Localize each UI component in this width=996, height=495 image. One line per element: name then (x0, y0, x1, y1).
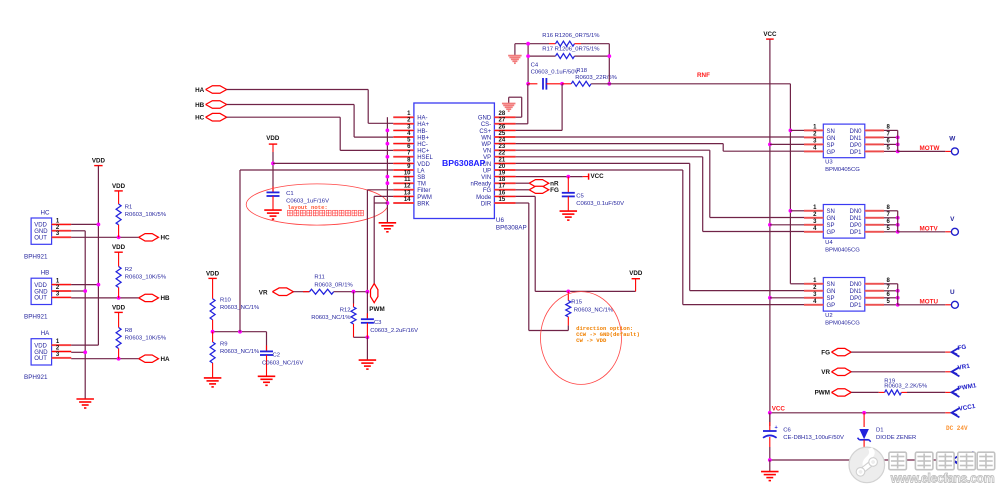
svg-text:R9: R9 (220, 342, 228, 348)
svg-text:CW -> VDD: CW -> VDD (576, 337, 607, 344)
svg-text:OUT: OUT (34, 356, 47, 362)
svg-text:+: + (775, 425, 778, 431)
svg-text:PWM: PWM (369, 306, 384, 313)
svg-text:DP1: DP1 (850, 303, 862, 309)
svg-text:SP: SP (827, 296, 835, 302)
svg-text:GP: GP (827, 230, 836, 236)
svg-text:VR: VR (821, 369, 830, 376)
svg-text:VCC: VCC (772, 406, 786, 413)
svg-text:HA: HA (41, 330, 50, 337)
svg-text:R0603_2.2K/5%: R0603_2.2K/5% (884, 384, 928, 390)
svg-text:HB: HB (161, 295, 171, 302)
svg-text:DIR: DIR (481, 201, 492, 207)
svg-text:nReady: nReady (471, 182, 492, 188)
svg-text:R16 R1206_0R75/1%: R16 R1206_0R75/1% (542, 33, 600, 39)
svg-text:DP1: DP1 (850, 150, 862, 156)
svg-text:HA: HA (195, 87, 205, 94)
svg-text:WN: WN (481, 135, 491, 141)
svg-text:DP1: DP1 (850, 230, 862, 236)
svg-text:HC+: HC+ (417, 149, 430, 155)
svg-text:U4: U4 (825, 240, 833, 246)
svg-text:FG: FG (483, 188, 492, 194)
svg-text:SN: SN (827, 209, 835, 215)
svg-text:DP0: DP0 (850, 223, 862, 229)
svg-text:GP: GP (827, 303, 836, 309)
svg-text:BPH921: BPH921 (24, 314, 48, 321)
svg-text:VDD: VDD (34, 223, 47, 229)
svg-text:11: 11 (404, 177, 411, 183)
svg-text:VDD: VDD (112, 244, 126, 251)
svg-text:MOTW: MOTW (920, 145, 940, 152)
svg-text:VCC: VCC (763, 31, 777, 38)
svg-text:VDD: VDD (629, 270, 643, 277)
svg-text:SP: SP (827, 143, 835, 149)
svg-text:DP0: DP0 (850, 143, 862, 149)
svg-text:FG: FG (957, 344, 967, 352)
svg-text:HB+: HB+ (417, 135, 429, 141)
svg-text:D1: D1 (876, 428, 884, 434)
svg-text:27: 27 (499, 118, 506, 124)
svg-text:VDD: VDD (112, 183, 126, 190)
svg-text:U6: U6 (496, 217, 505, 224)
svg-text:R18: R18 (576, 68, 588, 74)
svg-text:25: 25 (499, 131, 506, 137)
svg-text:W: W (949, 135, 956, 142)
svg-text:R2: R2 (125, 267, 133, 273)
svg-text:DN1: DN1 (849, 136, 862, 142)
svg-text:V: V (950, 216, 955, 223)
svg-text:VR: VR (259, 289, 268, 296)
svg-text:HC: HC (161, 235, 171, 242)
svg-text:C2: C2 (273, 353, 281, 359)
svg-text:VDD: VDD (417, 162, 430, 168)
svg-text:DN1: DN1 (849, 289, 862, 295)
svg-text:10: 10 (404, 171, 411, 177)
svg-text:21: 21 (499, 157, 506, 163)
svg-text:U2: U2 (825, 313, 833, 319)
svg-text:C0603_0.1uF/50V: C0603_0.1uF/50V (531, 70, 579, 76)
svg-text:HB: HB (41, 270, 50, 277)
svg-text:26: 26 (499, 124, 506, 130)
svg-text:layout note:: layout note: (288, 204, 328, 211)
svg-text:LA: LA (417, 168, 424, 174)
svg-text:SN: SN (827, 282, 835, 288)
svg-text:13: 13 (404, 190, 411, 196)
svg-text:BRK: BRK (417, 201, 429, 207)
svg-text:14: 14 (404, 197, 411, 203)
svg-text:RNF: RNF (697, 72, 710, 79)
svg-text:DN0: DN0 (849, 129, 862, 135)
svg-text:R17 R1206_0R75/1%: R17 R1206_0R75/1% (542, 46, 600, 52)
svg-text:HA+: HA+ (417, 122, 429, 128)
svg-text:C0603_NC/16V: C0603_NC/16V (262, 361, 303, 367)
svg-text:GND: GND (34, 289, 48, 295)
svg-text:DP0: DP0 (850, 296, 862, 302)
svg-text:VCC: VCC (591, 173, 605, 180)
svg-text:VP: VP (483, 155, 491, 161)
svg-text:OUT: OUT (34, 236, 47, 242)
svg-text:VDD: VDD (92, 158, 106, 165)
svg-text:R0603_22R/5%: R0603_22R/5% (575, 75, 617, 81)
svg-text:R10: R10 (220, 298, 232, 304)
svg-text:C6: C6 (783, 428, 791, 434)
svg-text:VDD: VDD (34, 343, 47, 349)
svg-text:www.elecfans.com: www.elecfans.com (890, 471, 995, 485)
svg-text:BPH921: BPH921 (24, 374, 48, 381)
svg-text:MOTU: MOTU (920, 298, 939, 305)
svg-text:BP6308AP: BP6308AP (496, 225, 527, 232)
svg-text:HC-: HC- (417, 142, 428, 148)
svg-text:DIODE ZENER: DIODE ZENER (876, 435, 916, 441)
svg-text:BPM0405CG: BPM0405CG (825, 167, 860, 173)
svg-text:PWM: PWM (815, 390, 830, 397)
svg-text:R0603_NC/1%: R0603_NC/1% (311, 315, 351, 321)
svg-text:FG: FG (821, 349, 830, 356)
svg-text:UN: UN (483, 162, 492, 168)
svg-text:UP: UP (483, 168, 491, 174)
svg-text:VDD: VDD (266, 135, 280, 142)
svg-text:R0603_0R/1%: R0603_0R/1% (314, 282, 353, 288)
svg-text:HB: HB (195, 102, 205, 109)
svg-text:C1: C1 (286, 191, 294, 197)
svg-text:28: 28 (499, 111, 506, 117)
svg-text:CS+: CS+ (479, 129, 491, 135)
svg-text:HC: HC (41, 209, 50, 216)
svg-text:WP: WP (482, 142, 492, 148)
svg-text:DN1: DN1 (849, 216, 862, 222)
svg-text:BPM0405CG: BPM0405CG (825, 247, 860, 253)
svg-text:SP: SP (827, 223, 835, 229)
svg-text:R11: R11 (314, 275, 324, 281)
svg-text:R8: R8 (125, 328, 133, 334)
svg-text:DN0: DN0 (849, 209, 862, 215)
svg-text:FG: FG (550, 187, 559, 194)
svg-text:C5: C5 (576, 194, 584, 200)
svg-text:HB-: HB- (417, 129, 427, 135)
svg-text:C3: C3 (374, 320, 382, 326)
svg-text:19: 19 (499, 171, 506, 177)
svg-text:R0603_NC/1%: R0603_NC/1% (220, 349, 260, 355)
svg-text:VDD: VDD (34, 283, 47, 289)
svg-text:C4: C4 (531, 62, 539, 68)
svg-text:R0603_10K/5%: R0603_10K/5% (125, 275, 167, 281)
svg-text:GN: GN (827, 136, 836, 142)
svg-text:GN: GN (827, 216, 836, 222)
svg-text:BPM0405CG: BPM0405CG (825, 320, 860, 326)
svg-text:12: 12 (404, 184, 411, 190)
svg-text:HSEL: HSEL (417, 155, 433, 161)
svg-text:R15: R15 (571, 300, 583, 306)
svg-text:U3: U3 (825, 160, 833, 166)
svg-text:GP: GP (827, 150, 836, 156)
svg-text:16: 16 (499, 190, 506, 196)
svg-text:MOTV: MOTV (920, 225, 939, 232)
svg-text:CE-D8H13_100uF/50V: CE-D8H13_100uF/50V (783, 435, 844, 441)
svg-text:CS-: CS- (481, 122, 491, 128)
svg-text:HA: HA (161, 356, 171, 363)
svg-text:18: 18 (499, 177, 506, 183)
svg-text:VDD: VDD (206, 270, 220, 277)
svg-text:GND: GND (34, 350, 48, 356)
svg-text:TM: TM (417, 182, 426, 188)
svg-text:DN0: DN0 (849, 282, 862, 288)
svg-text:C0603_2.2uF/16V: C0603_2.2uF/16V (370, 328, 418, 334)
svg-text:BP6308AP: BP6308AP (442, 158, 486, 168)
svg-text:GND: GND (34, 229, 48, 235)
svg-text:OUT: OUT (34, 296, 47, 302)
svg-text:C0603_0.1uF/50V: C0603_0.1uF/50V (576, 201, 624, 207)
svg-text:R0603_10K/5%: R0603_10K/5% (125, 212, 167, 218)
svg-text:SN: SN (827, 129, 835, 135)
svg-text:VN: VN (483, 149, 491, 155)
svg-text:HA-: HA- (417, 116, 427, 122)
svg-text:VDD: VDD (112, 304, 126, 311)
svg-text:R0603_10K/5%: R0603_10K/5% (125, 336, 167, 342)
svg-text:Mode: Mode (476, 195, 492, 201)
svg-text:24: 24 (499, 138, 506, 144)
svg-text:R1: R1 (125, 205, 133, 211)
svg-text:23: 23 (499, 144, 506, 150)
svg-text:GND: GND (478, 116, 492, 122)
svg-text:VIN: VIN (481, 175, 491, 181)
svg-text:20: 20 (499, 164, 506, 170)
svg-text:U: U (950, 289, 955, 296)
svg-text:22: 22 (499, 151, 506, 157)
svg-text:HC: HC (195, 115, 205, 122)
svg-text:Filter: Filter (417, 188, 430, 194)
svg-text:15: 15 (499, 197, 506, 203)
svg-text:DC 24V: DC 24V (946, 425, 968, 432)
svg-text:SB: SB (417, 175, 425, 181)
svg-text:PWM: PWM (417, 195, 432, 201)
svg-text:R0603_NC/1%: R0603_NC/1% (574, 307, 614, 313)
svg-text:BPH921: BPH921 (24, 253, 48, 260)
svg-text:GN: GN (827, 289, 836, 295)
svg-text:R12: R12 (340, 308, 351, 314)
svg-text:17: 17 (499, 184, 506, 190)
